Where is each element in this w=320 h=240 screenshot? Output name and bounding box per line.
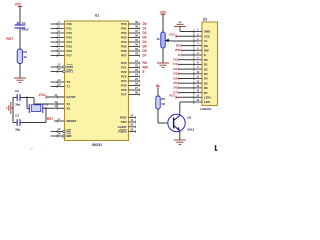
pin 39 P00 / net D0 (121, 20, 147, 26)
svg-text:P06: P06 (121, 49, 127, 53)
svg-text:VCC: VCC (169, 94, 176, 98)
wire LCD D5 / net D5 (173, 81, 193, 85)
wire X1 node to pin19 (27, 98, 65, 105)
svg-text:INT0: INT0 (67, 65, 74, 69)
svg-text:32: 32 (135, 51, 139, 55)
LCD pin 4 RS (194, 42, 208, 48)
pin 9 RESET (54, 117, 77, 123)
svg-text:D7: D7 (143, 53, 147, 57)
wire LCD GND (180, 31, 194, 33)
svg-text:D0: D0 (204, 58, 208, 62)
svg-text:PSEN: PSEN (118, 130, 126, 134)
svg-text:D3: D3 (204, 72, 208, 76)
svg-text:D6: D6 (173, 86, 177, 90)
svg-text:RS: RS (143, 61, 147, 65)
svg-text:11: 11 (196, 75, 199, 79)
svg-text:P17: P17 (67, 54, 73, 58)
svg-text:D3: D3 (173, 72, 177, 76)
wire crystal to X2 pin18 (43, 107, 65, 109)
LCD pin 3 VL (194, 37, 208, 43)
pin 7 P16 (51, 47, 73, 53)
svg-text:1: 1 (197, 28, 199, 32)
pin 34 P05 / net D5 (121, 42, 147, 48)
pin 5 P14 (51, 38, 73, 44)
svg-text:10uF: 10uF (22, 28, 29, 32)
svg-text:30: 30 (130, 123, 134, 127)
svg-text:34: 34 (135, 42, 139, 46)
svg-text:15: 15 (57, 82, 61, 86)
svg-text:D5: D5 (173, 81, 177, 85)
svg-text:C2: C2 (15, 89, 19, 93)
pin 12 INT0 (inverted) (51, 62, 74, 69)
LCD pin 8 D1 (194, 61, 208, 67)
pin 31 EA/VP (46, 93, 76, 99)
capacitor C3 30p (13, 114, 20, 132)
pin 37 P02 / net D2 (121, 29, 147, 35)
svg-text:P10: P10 (67, 22, 73, 26)
IC U1 part name 89C51 (92, 143, 102, 147)
svg-text:X2: X2 (67, 106, 71, 110)
svg-text:P22: P22 (121, 70, 127, 74)
svg-text:P27: P27 (121, 93, 127, 97)
svg-text:D1: D1 (143, 26, 147, 30)
svg-text:ift: ift (30, 147, 33, 151)
svg-text:D4: D4 (173, 76, 177, 80)
svg-text:1: 1 (58, 20, 60, 24)
svg-text:T1: T1 (67, 85, 71, 89)
svg-text:VCC: VCC (38, 93, 45, 97)
svg-text:12: 12 (57, 62, 61, 66)
wire collector to LCD LED- (180, 102, 194, 116)
LCD pin 11 D4 (194, 75, 208, 81)
svg-text:D6: D6 (204, 86, 208, 90)
svg-text:E: E (204, 53, 206, 57)
wire R1 to ground (19, 64, 21, 79)
svg-text:13: 13 (196, 84, 199, 88)
svg-text:7: 7 (197, 56, 199, 60)
svg-text:D1: D1 (204, 63, 208, 67)
svg-text:8: 8 (58, 51, 60, 55)
svg-text:29: 29 (130, 127, 134, 131)
wire VCC to C1 (19, 6, 21, 24)
svg-text:30p: 30p (15, 127, 20, 131)
LCD pin 16 LED- (194, 98, 211, 104)
junction node X2 (45, 107, 47, 109)
pin 35 P04 / net D4 (121, 38, 147, 44)
pin 38 P01 / net D1 (121, 24, 147, 30)
svg-text:16: 16 (57, 131, 61, 135)
svg-text:INT1: INT1 (67, 70, 74, 74)
svg-text:P23: P23 (121, 75, 127, 79)
wire RV1 to ground (162, 48, 164, 63)
LCD pin 9 D2 (194, 65, 208, 71)
svg-text:9: 9 (197, 65, 199, 69)
svg-text:P16: P16 (67, 49, 73, 53)
svg-text:16: 16 (196, 98, 199, 102)
pin 25 P24 (121, 77, 139, 83)
wire ground rail (crystal) (12, 98, 14, 123)
pin 27 P26 (121, 86, 139, 92)
IC U2 part name LM016L (200, 107, 211, 111)
pin 10 RXD (120, 113, 135, 119)
wire LCD D1 / net D1 (173, 62, 193, 66)
capacitor C2 30p (13, 89, 27, 107)
svg-text:RST: RST (6, 37, 14, 41)
svg-text:P15: P15 (67, 45, 73, 49)
crystal Y1 (29, 103, 48, 113)
wire X2 node down to C3 (20, 108, 46, 122)
svg-text:E: E (178, 53, 180, 57)
svg-text:8: 8 (197, 61, 199, 65)
svg-text:LED-: LED- (204, 100, 211, 104)
capacitor C1 10uF (electrolytic) (15, 21, 29, 31)
wire emitter to ground (179, 131, 181, 141)
svg-text:25: 25 (135, 77, 139, 81)
junction node X1 (26, 97, 28, 99)
wire BL label to R2 (157, 88, 159, 97)
pin 16 WR (inverted) (51, 131, 73, 138)
faint plot artifacts (bottom left) (30, 147, 47, 151)
svg-text:RW: RW (143, 65, 148, 69)
LCD pin 10 D3 (194, 70, 208, 76)
svg-text:RST: RST (47, 117, 53, 121)
pin 1 P10 (51, 20, 73, 26)
svg-text:27: 27 (135, 86, 139, 90)
svg-text:RW: RW (175, 48, 180, 52)
svg-text:RW: RW (204, 49, 209, 53)
svg-text:D3: D3 (143, 35, 147, 39)
svg-text:RESET: RESET (67, 119, 77, 123)
svg-text:14: 14 (196, 89, 199, 93)
svg-text:P26: P26 (121, 88, 127, 92)
power VCC (reset chain) (15, 3, 23, 7)
net label RST (reset pin) (47, 117, 53, 121)
svg-text:RS: RS (176, 43, 180, 47)
svg-text:RXD: RXD (120, 116, 127, 120)
svg-text:30p: 30p (15, 103, 20, 107)
svg-text:P07: P07 (121, 54, 127, 58)
svg-text:14: 14 (57, 78, 61, 82)
svg-text:P11: P11 (67, 27, 73, 31)
wire LCD D2 / net D2 (173, 67, 193, 71)
svg-text:21: 21 (135, 59, 139, 63)
svg-text:13: 13 (57, 67, 61, 71)
svg-text:ALE/P: ALE/P (118, 125, 127, 129)
pin 32 P07 / net D7 (121, 51, 147, 57)
pin 3 P12 (51, 29, 73, 35)
svg-text:WR: WR (67, 134, 73, 138)
power VCC (pot) (160, 10, 167, 14)
svg-text:R2: R2 (161, 97, 165, 101)
svg-text:23: 23 (135, 68, 139, 72)
LCD pin 7 D0 (194, 56, 208, 62)
svg-text:P24: P24 (121, 79, 127, 83)
svg-text:D5: D5 (143, 44, 147, 48)
svg-text:7: 7 (58, 47, 60, 51)
svg-text:D2: D2 (143, 31, 147, 35)
svg-text:LED+: LED+ (204, 96, 212, 100)
transistor Q1 9013 (NPN) (168, 114, 195, 131)
resistor R1 1k (17, 49, 27, 64)
pin 13 INT1 (inverted) (51, 67, 74, 74)
svg-text:28: 28 (135, 90, 139, 94)
svg-text:Q1: Q1 (188, 116, 192, 120)
svg-text:1k: 1k (156, 37, 160, 41)
svg-text:P03: P03 (121, 36, 127, 40)
pin 28 P27 (121, 90, 139, 96)
pin 11 TXD (121, 118, 136, 124)
svg-text:EA/VP: EA/VP (67, 95, 76, 99)
svg-text:Y1: Y1 (44, 103, 48, 107)
LCD pin 1 GND (194, 28, 211, 34)
svg-text:T0: T0 (67, 80, 71, 84)
svg-text:D2: D2 (173, 67, 177, 71)
pin 24 P23 (121, 72, 139, 78)
svg-text:22: 22 (135, 63, 139, 67)
pin 4 P13 (51, 33, 73, 39)
svg-text:U1: U1 (95, 13, 99, 17)
svg-text:6: 6 (197, 51, 199, 55)
svg-text:2: 2 (58, 24, 60, 28)
svg-text:D6: D6 (143, 49, 147, 53)
svg-text:17: 17 (57, 127, 61, 131)
pin 26 P25 (121, 81, 139, 87)
IC U2 LCD body (202, 17, 218, 105)
pin 14 T0 (51, 78, 71, 84)
pin 22 P21 / net RW (121, 63, 148, 69)
pin 30 ALE/P (118, 123, 136, 129)
svg-text:VCC: VCC (204, 34, 210, 38)
svg-text:VCC: VCC (15, 3, 22, 7)
pin 6 P15 (51, 42, 73, 48)
LCD pin 15 LED+ (194, 93, 212, 99)
svg-text:D4: D4 (143, 40, 147, 44)
pin 15 T1 (51, 82, 71, 88)
LCD pin 14 D7 (194, 89, 208, 95)
svg-text:1k: 1k (23, 55, 27, 59)
wire LCD RW / net RW (175, 48, 193, 52)
svg-text:24: 24 (135, 72, 139, 76)
wire C1 to R1 (node RST) (19, 28, 21, 49)
svg-text:P25: P25 (121, 84, 127, 88)
svg-text:38: 38 (135, 24, 139, 28)
IC U1 8051 body (65, 13, 129, 140)
svg-text:D0: D0 (143, 22, 147, 26)
wire VCC to RV1 (162, 14, 164, 32)
svg-text:U2: U2 (203, 17, 207, 21)
svg-text:P14: P14 (67, 40, 73, 44)
svg-text:4: 4 (58, 33, 60, 37)
wire LCD D6 / net D6 (173, 86, 193, 90)
svg-text:33: 33 (135, 47, 139, 51)
LCD pin 13 D6 (194, 84, 208, 90)
svg-text:5: 5 (58, 38, 60, 42)
wire LCD D7 / net D7 (173, 90, 193, 94)
net label BL (base resistor) (156, 84, 160, 89)
svg-text:9: 9 (58, 117, 60, 121)
svg-text:2: 2 (197, 32, 199, 36)
svg-text:P05: P05 (121, 45, 127, 49)
svg-text:D2: D2 (204, 67, 208, 71)
svg-text:D4: D4 (204, 77, 208, 81)
svg-text:D0: D0 (173, 58, 177, 62)
wire RV1 wiper to LCD VL (169, 40, 197, 43)
pin 29 PSEN (118, 127, 135, 133)
pin 8 P17 (51, 51, 73, 57)
svg-text:3: 3 (58, 29, 60, 33)
svg-text:D5: D5 (204, 81, 208, 85)
pin 19 X1 (55, 100, 71, 106)
svg-text:15: 15 (196, 93, 199, 97)
svg-text:VCC: VCC (160, 10, 167, 14)
svg-text:P13: P13 (67, 36, 73, 40)
pin 21 P20 / net RS (121, 59, 147, 65)
svg-text:39: 39 (135, 20, 139, 24)
svg-text:6: 6 (58, 42, 60, 46)
ground (below Q1) (174, 140, 186, 144)
svg-text:VL: VL (204, 39, 208, 43)
svg-text:GND: GND (204, 30, 210, 34)
LCD pin 2 VCC (194, 32, 210, 38)
ground (below R1) (14, 78, 26, 82)
svg-text:11: 11 (130, 118, 133, 122)
power label VCC (EA) (38, 93, 46, 99)
svg-text:RS: RS (204, 44, 208, 48)
svg-text:P04: P04 (121, 40, 127, 44)
svg-text:P20: P20 (121, 61, 127, 65)
svg-text:10: 10 (130, 113, 134, 117)
wire LCD LED+ / power label VCC (169, 94, 194, 100)
svg-text:P01: P01 (121, 27, 127, 31)
potentiometer RV1 1k (156, 32, 168, 48)
svg-text:3: 3 (197, 37, 199, 41)
svg-text:.c: .c (44, 147, 47, 151)
ground (crystal, pointing left) (7, 102, 13, 114)
svg-text:1K: 1K (161, 102, 166, 106)
svg-text:TXD: TXD (121, 120, 128, 124)
net label RST (6, 37, 14, 41)
page border mark (bottom right) (216, 145, 218, 151)
svg-text:89C51: 89C51 (92, 143, 102, 147)
wire LCD D4 / net D4 (173, 76, 193, 80)
svg-text:E: E (143, 70, 145, 74)
pin 23 P22 / net E (121, 68, 144, 74)
svg-text:R1: R1 (23, 50, 27, 54)
svg-text:D1: D1 (173, 62, 177, 66)
wire LCD VCC / power label VCC (169, 32, 194, 38)
wire LCD D0 / net D0 (173, 58, 193, 62)
svg-text:12: 12 (196, 79, 199, 83)
ground (LCD GND pin, inverted) (174, 22, 186, 31)
svg-text:4: 4 (197, 42, 199, 46)
svg-text:P12: P12 (67, 31, 73, 35)
pin 36 P03 / net D3 (121, 33, 147, 39)
pin 18 X2 (55, 104, 71, 110)
pin 33 P06 / net D6 (121, 47, 147, 53)
svg-text:10: 10 (196, 70, 199, 74)
wire X1 node down to crystal (27, 98, 29, 109)
svg-text:VCC: VCC (169, 32, 176, 36)
svg-text:P00: P00 (121, 22, 127, 26)
ground (below RV1) (157, 63, 169, 67)
wire LCD RS / net RS (176, 43, 194, 47)
svg-text:35: 35 (135, 38, 139, 42)
svg-text:P02: P02 (121, 31, 127, 35)
LCD pin 6 E (194, 51, 206, 57)
svg-text:D7: D7 (204, 91, 208, 95)
pin 2 P11 (51, 24, 73, 30)
svg-text:5: 5 (197, 46, 199, 50)
svg-text:9013: 9013 (188, 128, 195, 132)
svg-text:P21: P21 (121, 66, 127, 70)
svg-text:LM016L: LM016L (200, 107, 211, 111)
svg-text:C3: C3 (15, 114, 19, 118)
svg-text:26: 26 (135, 81, 139, 85)
svg-text:C1: C1 (22, 21, 26, 25)
resistor R2 1k (156, 96, 166, 109)
pin 17 RD (inverted) (51, 127, 72, 134)
svg-text:36: 36 (135, 33, 139, 37)
wire R2 to base (158, 109, 174, 123)
svg-text:37: 37 (135, 29, 139, 33)
wire LCD D3 / net D3 (173, 72, 193, 76)
wire LCD E / net E (178, 53, 194, 57)
LCD pin 5 RW (194, 46, 209, 52)
LCD pin 12 D5 (194, 79, 208, 85)
